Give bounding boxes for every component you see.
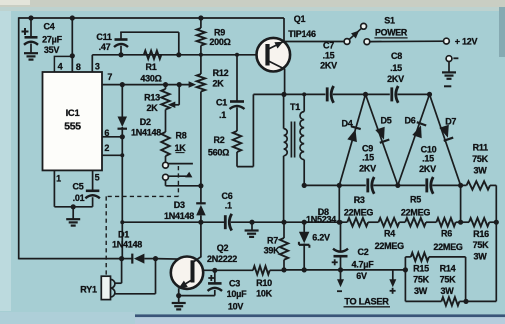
svg-text:R6: R6 — [441, 228, 452, 238]
svg-text:3W: 3W — [414, 286, 428, 296]
svg-text:.1: .1 — [225, 200, 232, 210]
wire left rail bottom run to D1 node — [19, 258, 122, 260]
background bottom dark band — [135, 314, 505, 317]
svg-text:22MEG: 22MEG — [344, 208, 374, 218]
wire common rail past C6 — [231, 221, 347, 223]
svg-text:10µF: 10µF — [227, 289, 247, 299]
transistor Q2 collector diagonal — [193, 257, 202, 263]
svg-text:1: 1 — [56, 173, 61, 183]
svg-text:8: 8 — [76, 62, 81, 72]
wire D2 bottom lead — [121, 127, 123, 137]
capacitor C5 — [85, 191, 100, 199]
wire pin 5 lead upper — [92, 170, 94, 190]
wire C11 top L to R1 right — [120, 32, 179, 55]
node junction secondary / top HV rail — [302, 92, 306, 96]
wire contact lower to R12 column — [166, 180, 201, 186]
node junction pin 2 / column — [120, 153, 124, 157]
wire R7 bottom lead — [283, 260, 285, 270]
ground below minus terminal — [442, 72, 456, 78]
capacitor C11 — [114, 40, 128, 48]
wire lower rail R4-R5 — [399, 221, 405, 223]
wire R7 top lead — [283, 222, 285, 238]
wire top HV rail — [253, 93, 325, 95]
resistor R3 — [347, 218, 368, 226]
svg-text:C1: C1 — [216, 97, 227, 107]
svg-text:6V: 6V — [356, 271, 367, 281]
node junction D1 / RY1 riser / Q2 base — [153, 256, 158, 261]
transformer T1 secondary coil — [300, 112, 304, 160]
node junction common rail / ground stub — [249, 220, 254, 225]
wire R9 bottom to pin3 rail — [200, 46, 202, 56]
wire multiplier leg apex1 right — [366, 94, 398, 185]
svg-text:22MEG: 22MEG — [433, 242, 463, 252]
svg-text:C3: C3 — [229, 279, 240, 289]
wire lower rail R5-R6 — [426, 221, 436, 223]
wire C11 top stub — [120, 32, 122, 39]
node junction zener / output rail — [302, 267, 307, 272]
transistor Q1 emitter diagonal — [268, 41, 285, 49]
transformer T1 primary coil — [284, 129, 288, 156]
node junction C2 top / lower rail — [339, 220, 343, 224]
svg-text:3W: 3W — [474, 251, 488, 261]
wire RY1 bottom riser — [115, 259, 156, 294]
arrow to laser minus — [337, 279, 344, 287]
wire C3 top lead — [214, 270, 216, 283]
wire common rail to Q2 collector — [200, 222, 202, 257]
node junction apex1 — [363, 92, 368, 97]
svg-text:C8: C8 — [391, 51, 402, 61]
svg-text:560Ω: 560Ω — [208, 147, 229, 157]
wire R12 column to D3 — [200, 186, 202, 205]
svg-text:.15: .15 — [323, 50, 335, 60]
svg-text:5: 5 — [95, 172, 100, 182]
node junction mid rail leg D7 — [458, 183, 463, 188]
capacitor C8 — [392, 86, 398, 103]
wire pin2 column to D1 node — [121, 222, 123, 258]
wire pin 6 — [102, 136, 122, 138]
wire lower rail R16 end — [489, 221, 496, 223]
wire Q1 collector riser — [283, 18, 285, 42]
relay contact terminal upper — [163, 162, 169, 168]
svg-text:2: 2 — [104, 143, 109, 153]
wire laser plus drop — [392, 270, 394, 280]
svg-text:Q1: Q1 — [294, 14, 306, 24]
node junction lower rail tie1 — [337, 220, 342, 225]
wire lower rail R3-R4 — [368, 221, 378, 223]
node junction C2 / output rail — [338, 267, 343, 272]
wire C1 top lead — [236, 55, 238, 102]
svg-text:D7: D7 — [445, 117, 456, 127]
ground on common rail — [245, 231, 259, 237]
node junction top rail / R9 — [198, 15, 203, 20]
svg-text:S1: S1 — [384, 16, 395, 26]
switch S1 lever — [349, 28, 361, 39]
node junction C11 bottom / pin3 wire — [118, 52, 123, 57]
resistor R2 — [233, 131, 241, 152]
svg-text:T1: T1 — [290, 102, 300, 112]
relay coil RY1 — [101, 276, 115, 299]
wire zener top lead — [303, 222, 305, 232]
svg-text:POWER: POWER — [375, 28, 408, 38]
wire C2 bottom lead — [340, 256, 342, 270]
label TO LASER — [344, 296, 391, 307]
svg-text:6.2V: 6.2V — [312, 233, 330, 243]
diode D6 — [412, 122, 426, 138]
diode D3 — [196, 203, 206, 215]
wire C4 stem — [30, 18, 32, 37]
resistor R16 — [469, 218, 489, 226]
wire D2 top lead — [121, 85, 123, 117]
label minus HV — [444, 85, 451, 87]
wire box top left — [405, 256, 410, 258]
wire multiplier leg apex1 left — [339, 94, 365, 185]
resistor R4 — [379, 218, 400, 226]
svg-text:7: 7 — [107, 72, 112, 82]
svg-text:IC1: IC1 — [66, 107, 80, 118]
svg-text:.15: .15 — [422, 154, 434, 164]
ground below C4 — [24, 53, 38, 59]
wire C1 to R2 — [236, 108, 238, 132]
svg-text:75K: 75K — [440, 275, 457, 285]
wire T1 secondary top — [303, 94, 305, 111]
node junction secondary / lower rail — [302, 220, 307, 225]
diode D2 — [118, 117, 128, 129]
svg-text:75K: 75K — [473, 240, 490, 250]
wire left rail vertical — [18, 17, 20, 259]
svg-text:4.7µF: 4.7µF — [352, 260, 375, 270]
resistor R12 potentiometer — [197, 74, 205, 92]
svg-text:C11: C11 — [96, 32, 112, 42]
capacitor C2 polarity + — [332, 259, 338, 265]
node junction D2 / pin 6 wire — [120, 134, 125, 139]
svg-text:R7: R7 — [267, 235, 278, 245]
wire output rail — [284, 269, 405, 271]
svg-text:3: 3 — [95, 62, 100, 72]
node junction left rail / D1 / pin2 column — [119, 256, 124, 261]
wire ground stub — [251, 222, 253, 230]
capacitor C10 — [427, 177, 433, 194]
resistor R5 — [405, 218, 426, 226]
svg-text:D3: D3 — [174, 200, 185, 210]
svg-text:2K: 2K — [146, 103, 158, 113]
wire laser minus drop — [340, 270, 342, 280]
wire pin 2 — [102, 154, 122, 156]
background right edge sliver — [499, 7, 505, 57]
wire tie D7 to lower rail — [460, 185, 462, 222]
resistor R15 — [411, 253, 429, 261]
wire minus terminal to ground — [448, 62, 450, 73]
wire box right side — [465, 257, 467, 302]
wire pin 3 rail to Q1 base — [92, 54, 256, 56]
svg-text:1N5234: 1N5234 — [306, 215, 336, 225]
svg-text:R1: R1 — [145, 62, 156, 72]
wire top rail C8 to apex2 — [397, 93, 429, 95]
wire top rail C7 to apex1 — [333, 93, 366, 95]
arrow R13 wiper — [168, 102, 176, 109]
node junction apex2 — [427, 92, 432, 97]
capacitor C2 — [333, 249, 348, 257]
node junction D3 / common rail — [198, 220, 203, 225]
background left margin — [0, 11, 11, 311]
node junction column / common rail — [120, 220, 124, 224]
wire pin 1 lead — [54, 170, 92, 206]
svg-text:4: 4 — [58, 61, 63, 71]
resistor R13 potentiometer — [161, 85, 169, 110]
wire mid rail left — [304, 184, 366, 186]
wire R12 column down to switch node — [200, 92, 202, 187]
transistor Q1 body — [257, 38, 291, 72]
wire +12V drop to pin 8 — [71, 18, 73, 73]
label POWER — [374, 28, 407, 38]
wire R8 to contact terminal — [165, 156, 167, 162]
relay contact terminal lower — [163, 174, 169, 180]
wire RY1 top L — [115, 259, 122, 284]
svg-text:R14: R14 — [440, 263, 456, 273]
terminal +12V — [444, 38, 450, 44]
wire box bottom left — [405, 300, 441, 302]
svg-text:TIP146: TIP146 — [288, 29, 316, 39]
wire box bottom right — [459, 300, 465, 302]
svg-text:10K: 10K — [256, 288, 273, 298]
arrow to laser plus — [389, 279, 396, 287]
svg-text:1K: 1K — [174, 143, 186, 153]
wire emitter ground stub — [178, 296, 180, 303]
wire R11 to right column — [490, 184, 496, 186]
svg-text:R4: R4 — [384, 228, 395, 238]
node junction pin 4 box / pin 8 wire — [70, 53, 75, 58]
ground below IC1 — [66, 219, 80, 225]
svg-text:27µF: 27µF — [42, 34, 62, 44]
svg-text:D6: D6 — [404, 116, 415, 126]
diode D4 — [347, 126, 360, 142]
svg-text:C5: C5 — [72, 182, 83, 192]
wire S1 to +12V terminal — [370, 40, 444, 42]
wire Q2 to R10 — [203, 269, 253, 271]
svg-text:C7: C7 — [323, 40, 334, 50]
resistor R8 — [161, 132, 169, 156]
resistor R10 — [253, 266, 270, 274]
node junction right column / lower rail — [494, 220, 499, 225]
svg-text:TO LASER: TO LASER — [344, 296, 389, 306]
diode D1 — [122, 254, 156, 264]
svg-text:2K: 2K — [212, 78, 224, 88]
transistor Q1 collector diagonal — [268, 61, 286, 95]
svg-text:2N2222: 2N2222 — [207, 254, 237, 264]
svg-text:39K: 39K — [264, 245, 281, 255]
capacitor C4 — [24, 37, 38, 45]
wire R10 to R7 node — [270, 269, 284, 271]
wire zener bottom lead — [303, 244, 305, 270]
wire T1 primary top — [283, 94, 285, 128]
node junction top rail / pin 8 drop — [70, 15, 75, 20]
node junction pin3 rail / C1 — [235, 53, 239, 57]
wire T1 primary bottom — [283, 156, 285, 222]
node junction mid rail leg1 — [337, 183, 342, 188]
dashed linkage relay to contact — [106, 166, 178, 276]
node junction lower rail tie2 — [458, 220, 463, 225]
wire box to right column — [466, 300, 496, 302]
svg-text:1N4148: 1N4148 — [112, 240, 142, 250]
wire +12V top rail — [19, 17, 284, 19]
node junction output rail / box — [403, 267, 408, 272]
capacitor C7 — [327, 86, 333, 103]
svg-text:2KV: 2KV — [359, 163, 376, 173]
resistor R9 — [197, 28, 205, 46]
wire multiplier leg apex2 right — [430, 94, 461, 185]
svg-text:3W: 3W — [441, 286, 455, 296]
wire tie leg1 to lower rail — [338, 185, 340, 222]
ground below Q2 — [172, 303, 186, 309]
svg-text:2KV: 2KV — [387, 74, 404, 84]
wire top rail apex1 to C8 — [366, 93, 390, 95]
diode D5 — [375, 127, 389, 143]
wire lower rail R6-R16 — [456, 221, 469, 223]
node junction Q2 emitter / C3 / ground — [176, 293, 181, 298]
wire common rail left section — [122, 221, 226, 223]
wire right column — [495, 185, 497, 301]
transistor Q1 base bar — [265, 44, 269, 66]
svg-text:75K: 75K — [472, 154, 489, 164]
wire pin2 column down to common rail — [121, 155, 123, 222]
switch S1 output terminal — [364, 39, 370, 45]
capacitor C9 — [368, 177, 374, 194]
node junction top rail / C4 — [28, 15, 33, 20]
svg-text:R10: R10 — [256, 278, 272, 288]
svg-text:6: 6 — [104, 128, 109, 138]
label laser minus sign — [337, 290, 342, 292]
svg-text:35V: 35V — [44, 45, 60, 55]
node junction T1 primary bottom / common rail / R7 — [281, 220, 286, 225]
svg-text:22MEG: 22MEG — [401, 207, 431, 217]
svg-text:2KV: 2KV — [320, 61, 337, 71]
svg-text:2KV: 2KV — [419, 164, 436, 174]
svg-text:10V: 10V — [228, 301, 244, 311]
node junction pin7 wire / D2 — [120, 82, 125, 87]
switch S1 throw upper — [361, 23, 367, 29]
label laser plus sign — [390, 288, 396, 294]
wire C5 bottom — [92, 197, 94, 207]
background top scan strip — [0, 0, 505, 7]
wire C4 to ground — [30, 44, 32, 53]
svg-text:.15: .15 — [390, 63, 402, 73]
wire R9 top lead — [200, 18, 202, 28]
svg-text:R9: R9 — [214, 27, 225, 37]
wire C11 bottom stub — [120, 46, 122, 55]
svg-text:555: 555 — [64, 122, 81, 133]
wire multiplier leg apex2 left — [398, 94, 430, 185]
wire R2 bottom loop to top rail — [237, 94, 253, 166]
resistor R7 — [280, 238, 288, 260]
svg-text:R2: R2 — [213, 135, 224, 145]
svg-text:1N4148: 1N4148 — [164, 211, 194, 221]
label R8 value 1K — [174, 143, 186, 153]
wire C3 bottom to emitter — [179, 290, 215, 296]
svg-text:C2: C2 — [357, 247, 368, 257]
svg-text:75K: 75K — [413, 275, 430, 285]
svg-text:R3: R3 — [354, 195, 365, 205]
svg-text:.47: .47 — [99, 42, 111, 52]
resistor R6 — [436, 218, 455, 226]
transistor Q2 emitter diagonal — [179, 280, 193, 289]
svg-text:R8: R8 — [175, 130, 186, 140]
wire C2 top lead — [340, 222, 342, 251]
svg-text:430Ω: 430Ω — [140, 73, 161, 83]
wire R13 to R8 — [165, 110, 167, 133]
diode D8 zener — [299, 232, 310, 248]
svg-text:1N4148: 1N4148 — [131, 128, 161, 138]
terminal minus — [446, 56, 452, 62]
wire pin 7 to R12 wiper — [102, 84, 190, 86]
node junction C11 top leg / pin3 wire — [176, 52, 181, 57]
node junction Q2 wire / C3 — [212, 268, 217, 273]
svg-text:22MEG: 22MEG — [375, 241, 405, 251]
op-amp U1 IC1 555 body — [43, 72, 103, 170]
svg-text:R5: R5 — [410, 194, 421, 204]
transistor Q2 base bar — [191, 260, 195, 282]
arrow relay contact — [185, 172, 192, 178]
wire box left side — [404, 257, 406, 302]
svg-text:.01: .01 — [73, 193, 85, 203]
wire mid rail C10 to R11 — [432, 184, 466, 186]
wire box top right — [429, 256, 466, 258]
svg-text:R13: R13 — [144, 92, 160, 102]
wire ground stub IC — [72, 207, 74, 219]
node junction Q1 emitter / top HV rail — [281, 92, 286, 97]
node junction secondary bottom / mid rail — [302, 183, 307, 188]
node junction switch wire / R12 column — [198, 183, 203, 188]
node junction pin7 wire / R13 wiper — [177, 82, 182, 87]
svg-text:RY1: RY1 — [80, 284, 97, 294]
transformer T1 core — [291, 122, 294, 158]
node junction box bottom / right column — [463, 299, 468, 304]
node junction mid rail legs D5 D6 — [395, 183, 400, 188]
capacitor C4 polarity + — [22, 28, 29, 35]
capacitor C3 polarity + — [208, 275, 214, 281]
svg-text:D1: D1 — [118, 229, 129, 239]
svg-text:200Ω: 200Ω — [209, 37, 230, 47]
svg-text:C4: C4 — [43, 22, 54, 32]
diode D7 — [439, 125, 453, 141]
resistor R1 — [144, 51, 162, 59]
node junction pin7 wire / R13 top — [163, 82, 168, 87]
svg-text:D5: D5 — [380, 116, 391, 126]
svg-text:R12: R12 — [213, 68, 229, 78]
node junction pin1-5 / ground — [71, 204, 76, 209]
wire pin 4 box — [54, 56, 72, 72]
svg-text:D4: D4 — [341, 118, 352, 128]
capacitor C6 — [225, 214, 231, 231]
svg-text:R16: R16 — [473, 229, 489, 239]
node junction R7 bottom / output rail — [281, 267, 286, 272]
capacitor C3 — [208, 283, 223, 291]
svg-text:+ 12V: + 12V — [455, 36, 478, 46]
svg-text:R15: R15 — [413, 263, 429, 273]
wire T1 secondary bottom — [303, 160, 305, 186]
capacitor C1 — [230, 102, 245, 110]
node junction R9 / pin3 rail / R12 — [199, 53, 203, 57]
wire mid rail C9 to C10 — [373, 184, 425, 186]
wire pin 3 stub — [91, 55, 93, 73]
wire contact arm upper — [168, 163, 193, 165]
svg-text:.1: .1 — [219, 110, 226, 120]
transistor Q2 body — [171, 257, 203, 289]
wire Q2 base — [156, 258, 192, 261]
resistor R14 — [441, 297, 459, 305]
wire D2 node down to pin 2 wire — [121, 137, 123, 156]
wire Q2 emitter lead — [178, 288, 180, 295]
wire D3 to common rail — [200, 216, 202, 223]
switch S1 pole — [344, 39, 350, 45]
